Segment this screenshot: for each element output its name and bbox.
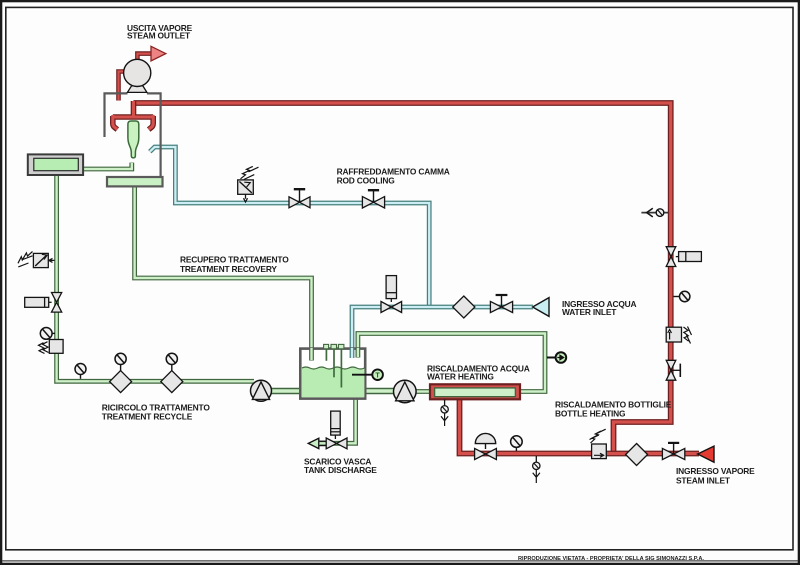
steam trap on steam riser [666, 327, 691, 344]
actuated valve on steam riser (cylinder at right) [666, 247, 701, 267]
drain under heat exchanger [441, 400, 448, 427]
filter F1 on recycle line with sight glass [110, 353, 132, 392]
sight glass on recycle line [75, 364, 86, 379]
wire: feed line left tank to bottle elbow [83, 163, 132, 169]
filter on steam inlet line [626, 444, 648, 466]
recovery dip pipe in tank [309, 348, 314, 361]
wire: treatment recovery line from tray to tank [135, 185, 312, 361]
left treatment tank [28, 154, 83, 175]
control valve with diaphragm on steam heating line [475, 433, 497, 459]
sight glass on steam heating line [511, 436, 523, 451]
wire: main steam line (red) from chamber to right riser down to branch [134, 103, 671, 452]
water inlet arrow [533, 298, 549, 317]
chamber (rinser machine outline) [105, 93, 161, 186]
wire: bottle heating bottom steam line (red) with riser to heat exchanger [460, 396, 700, 454]
valve V1 rod cooling (hand valve with T handle) [289, 189, 310, 208]
heating loop dip pipe in tank [355, 348, 360, 358]
steam inlet arrow [698, 446, 714, 462]
wire: treatment line from left tank down and recycle bottom line (green) [57, 174, 254, 381]
svg-text:RECUPERO TRATTAMENTO: RECUPERO TRATTAMENTO [180, 254, 289, 264]
wire: rod cooling line (teal) from chamber nozzle to water line [150, 147, 429, 307]
valve V2 rod cooling (hand valve with T handle) [362, 190, 384, 208]
hand valve on steam inlet [662, 443, 684, 460]
water inlet dip pipe in tank [350, 348, 355, 358]
collection tray under bottle [107, 177, 163, 186]
tank top probe fittings [324, 344, 344, 348]
wire: tank discharge drain line [320, 398, 356, 443]
flow instrument on heating loop [547, 352, 566, 363]
solenoid valve on left treatment line [18, 252, 55, 268]
tank discharge arrow [308, 438, 319, 448]
actuated valve on left treatment line (cylinder at left) [25, 293, 62, 313]
actuated valve on water inlet (with vertical cylinder) [381, 276, 402, 313]
main treatment tank (vasca) [300, 349, 365, 399]
bottle in chamber [128, 121, 139, 158]
pressure regulator on steam inlet line [590, 429, 607, 458]
vent on steam riser [641, 208, 668, 217]
steam trap on left treatment line [39, 340, 64, 354]
svg-text:ROD COOLING: ROD COOLING [337, 176, 395, 186]
level probes in tank [326, 349, 341, 388]
svg-text:TREATMENT RECYCLE: TREATMENT RECYCLE [102, 411, 193, 421]
filter on water inlet line [453, 296, 475, 318]
svg-text:BOTTLE HEATING: BOTTLE HEATING [555, 408, 625, 418]
svg-text:TREATMENT RECOVERY: TREATMENT RECOVERY [180, 264, 277, 274]
pressure regulator on rod cooling line [238, 166, 259, 202]
pump P1 (left recycle pump) [251, 380, 272, 401]
wire: steam outlet suction pipe to blower [119, 72, 125, 101]
svg-text:STEAM OUTLET: STEAM OUTLET [127, 31, 191, 41]
svg-text:WATER HEATING: WATER HEATING [427, 371, 494, 381]
sight glass on left treatment line [40, 328, 55, 340]
heat exchanger (water heating) [430, 384, 520, 399]
hand valve on water inlet [490, 295, 512, 313]
svg-text:TANK DISCHARGE: TANK DISCHARGE [304, 465, 377, 475]
wire: water heating loop return to tank (green) [358, 334, 545, 392]
filter F2 on recycle line with sight glass [161, 353, 183, 392]
wire: tank to right pump [365, 388, 396, 394]
hand valve on steam riser (handle right) [666, 360, 680, 380]
wire: water inlet line (light blue) into tank [352, 307, 533, 358]
blower (steam outlet fan) [124, 59, 151, 92]
drain on steam heating line [533, 456, 540, 483]
pump P2 (heating loop pump) [394, 380, 417, 403]
svg-text:T: T [375, 371, 380, 380]
wire: pump suction left from tank [270, 388, 301, 394]
svg-text:STEAM INLET: STEAM INLET [676, 475, 731, 485]
sight glass on steam riser [674, 291, 690, 301]
wire: steam distribution manifold with J-hooks inside chamber [113, 101, 154, 130]
svg-text:WATER INLET: WATER INLET [562, 307, 617, 317]
temperature instrument T on tank [352, 369, 383, 380]
wire: steam outlet arrow from blower [137, 46, 165, 68]
svg-text:RIPRODUZIONE VIETATA - PROPR: RIPRODUZIONE VIETATA - PROPRIETA' DELLA … [518, 556, 704, 562]
wire: right pump to heat exchanger [415, 389, 431, 394]
tank discharge actuated valve with cylinder [319, 411, 347, 449]
